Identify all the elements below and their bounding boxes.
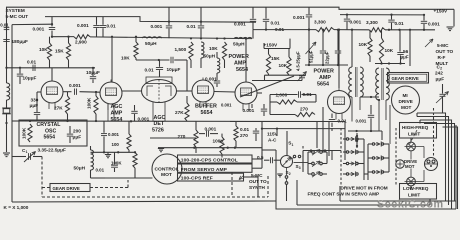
capacitor 0.01 to det	[136, 59, 170, 61]
svg-text:100-200-CPS CONTROL: 100-200-CPS CONTROL	[181, 157, 238, 163]
svg-text:LOW-FREQ: LOW-FREQ	[403, 186, 429, 191]
motor MI DRIVE MOT	[392, 86, 420, 114]
svg-text:0.01: 0.01	[0, 22, 9, 27]
svg-text:BUFFER: BUFFER	[195, 104, 217, 110]
inductor 50uH buffer plate	[217, 58, 220, 73]
svg-text:0.001: 0.001	[77, 23, 89, 28]
wire verticals to right cluster	[252, 7, 254, 18]
capacitor 0.01 x266	[265, 7, 267, 18]
svg-text:4.5-25μμF: 4.5-25μμF	[296, 51, 301, 71]
crystal Y1	[6, 107, 8, 109]
resistor 100K	[95, 92, 97, 96]
capacitor 0.01 pa2	[298, 91, 300, 97]
capacitor 0.001 x169	[168, 7, 170, 25]
svg-text:LIMIT: LIMIT	[408, 193, 420, 198]
wire bus E +150V right	[340, 14, 424, 16]
stems tube2 to bus	[107, 104, 109, 122]
capacitor 0.01 x201	[200, 7, 202, 25]
svg-text:MOT: MOT	[161, 172, 172, 178]
wire under 10Ks	[375, 63, 405, 65]
svg-text:μμF: μμF	[436, 77, 445, 82]
svg-text:100K: 100K	[213, 139, 225, 144]
capacitor 22uuF	[322, 30, 324, 50]
wire S1 to bank	[294, 162, 309, 164]
capacitor 0.001 pa out	[257, 92, 262, 94]
svg-text:LIMIT: LIMIT	[408, 132, 420, 137]
variable capacitor 4.5-25uuF	[299, 75, 305, 77]
svg-text:FREQ CONT SW IN SERVO AMP: FREQ CONT SW IN SERVO AMP	[308, 192, 380, 197]
svg-text:0.001: 0.001	[243, 108, 255, 113]
capacitor 0.001 coupling	[63, 91, 72, 93]
svg-text:10μμF: 10μμF	[23, 76, 37, 81]
svg-text:0.001: 0.001	[234, 22, 246, 27]
resistor 10K buffer grid	[135, 37, 137, 42]
capacitor 0.001 buffer	[214, 80, 220, 82]
capacitor tank right	[337, 30, 339, 50]
svg-text:180μμF: 180μμF	[12, 39, 29, 44]
resistor 10K left	[49, 37, 51, 43]
box HIGH-FREQ LIMIT	[400, 123, 437, 139]
capacitor 0.01 x103	[102, 17, 104, 25]
ground top-right	[447, 26, 454, 28]
wire switch bank stubs	[343, 138, 347, 140]
svg-text:1,000: 1,000	[276, 93, 288, 98]
transformer T1 secondary	[360, 67, 363, 97]
resistor 100 agc	[128, 122, 130, 135]
svg-text:5-MC OUT: 5-MC OUT	[6, 14, 29, 19]
svg-text:5654: 5654	[111, 117, 123, 123]
wire +150V right drop to ground	[453, 9, 455, 26]
svg-text:1: 1	[292, 143, 294, 147]
capacitor 10uuF second	[92, 68, 94, 76]
wire control mot left	[105, 177, 153, 179]
wire mid horizontals	[230, 121, 345, 123]
svg-text:10K: 10K	[209, 46, 218, 51]
svg-text:0.01: 0.01	[395, 21, 405, 26]
box FROM SERVO AMP	[178, 164, 253, 172]
wire buffer grid	[176, 90, 192, 92]
svg-text:100: 100	[112, 142, 120, 147]
svg-text:100K: 100K	[87, 97, 92, 109]
svg-text:0.01: 0.01	[240, 127, 250, 132]
svg-text:OUT TO: OUT TO	[436, 49, 454, 54]
resistor 270 det	[194, 130, 198, 147]
resistor 270 mid2	[234, 126, 238, 141]
capacitor 0.001 agc lower	[103, 122, 105, 133]
svg-text:HIGH-FREQ: HIGH-FREQ	[402, 125, 429, 130]
svg-text:CONTROL: CONTROL	[155, 166, 179, 172]
switch S1 motor cap	[281, 156, 293, 168]
resistor 10K pa	[287, 57, 291, 75]
svg-text:15K: 15K	[55, 49, 64, 54]
svg-text:10K: 10K	[385, 48, 394, 53]
svg-text:0.001: 0.001	[428, 21, 440, 26]
tube crystal osc V1	[41, 81, 63, 103]
svg-text:0.01: 0.01	[107, 24, 117, 29]
capacitor 0.01 mid2	[255, 128, 257, 130]
svg-text:100K: 100K	[22, 127, 27, 139]
svg-text:AMP: AMP	[111, 111, 123, 117]
svg-text:GEAR DRIVE: GEAR DRIVE	[53, 186, 80, 191]
svg-text:OSC: OSC	[45, 128, 56, 134]
wire dashed bottom long	[42, 196, 268, 198]
wire bus C cont	[90, 37, 252, 39]
svg-text:0.001: 0.001	[138, 116, 150, 121]
svg-text:0.01: 0.01	[187, 24, 197, 29]
capacitor 180uuF	[6, 68, 8, 83]
svg-text:3.35-22.5μμF: 3.35-22.5μμF	[38, 148, 67, 153]
resistor 100K det	[220, 137, 224, 154]
svg-text:MOT: MOT	[405, 164, 415, 169]
inductor 50uH second on bus C	[234, 37, 252, 38]
switch bank dashed enclosure	[340, 128, 342, 186]
resistor 15K	[266, 54, 270, 74]
resistor 2,900	[74, 35, 90, 39]
wire box stubs	[252, 158, 262, 160]
resistor 1,500	[189, 42, 193, 60]
wire crystal bottom	[6, 123, 8, 152]
svg-text:0.001: 0.001	[205, 77, 217, 82]
resistor 10K right2	[379, 38, 383, 62]
wire dashed motor link	[433, 108, 435, 156]
wire plate AGC amp	[111, 37, 113, 82]
inductor 50uH vert	[201, 42, 204, 58]
capacitor 0.001 pa2	[370, 105, 372, 114]
svg-text:5654: 5654	[201, 110, 213, 116]
wire pa1 lower rail	[265, 74, 307, 76]
wire power amp plate	[245, 39, 247, 82]
wire buffer out	[214, 91, 235, 94]
wire bottom nest	[276, 150, 456, 209]
wire bottom left long	[12, 201, 276, 202]
svg-text:10μμF: 10μμF	[86, 70, 100, 75]
svg-text:DRIVE MOT IN FROM: DRIVE MOT IN FROM	[341, 185, 388, 190]
svg-text:10μμF: 10μμF	[167, 67, 181, 72]
wire pa cathode	[251, 104, 253, 108]
svg-text:50μH: 50μH	[204, 54, 216, 59]
box GEAR DRIVE right	[388, 73, 429, 84]
wire right area interconnect	[409, 30, 411, 66]
wire second bus B	[45, 17, 256, 23]
tube AGC AMP V2	[100, 82, 122, 104]
resistor 3,300 second	[369, 28, 385, 32]
dashed link S3	[302, 146, 304, 172]
capacitor tank 51uuF variable	[308, 30, 310, 65]
svg-text:AGC: AGC	[111, 104, 123, 110]
wire agc join	[91, 151, 136, 153]
svg-text:MOT: MOT	[401, 105, 412, 110]
svg-text:0.01: 0.01	[96, 167, 105, 172]
capacitor 0.01 pa2 cath	[331, 114, 333, 119]
svg-text:POWER: POWER	[314, 69, 334, 75]
svg-text:56: 56	[403, 49, 409, 54]
box 100-200-CPS CONTROL	[178, 155, 253, 163]
svg-text:0.5: 0.5	[257, 155, 264, 160]
tube POWER AMP V6	[328, 91, 351, 114]
switch contacts left pair	[312, 151, 315, 154]
svg-text:5654: 5654	[44, 135, 56, 141]
svg-text:5-MC: 5-MC	[251, 173, 263, 178]
resistor 270 pa	[295, 112, 315, 116]
svg-text:3,300: 3,300	[314, 20, 326, 25]
svg-text:FROM SERVO AMP: FROM SERVO AMP	[181, 167, 228, 173]
resistor 27K cathode	[67, 92, 69, 96]
resistor 15K	[68, 37, 70, 43]
wire left box top	[12, 23, 52, 25]
resistor 10K right1	[368, 38, 372, 56]
tube BUFFER V4	[192, 80, 214, 102]
wire 115V feeds	[261, 122, 263, 153]
svg-text:+150V: +150V	[264, 42, 279, 47]
wire misc right	[410, 151, 412, 160]
resistor 10K mid	[222, 42, 226, 60]
svg-text:0.01: 0.01	[271, 21, 281, 26]
wire vert x52 w/ cap	[51, 17, 53, 27]
wire 5mc out bottom vertical	[262, 149, 276, 151]
svg-text:15K: 15K	[271, 56, 280, 61]
wire right vertical feeds	[442, 104, 444, 113]
wire pa interconnects	[270, 94, 298, 96]
capacitor 0.001 x424	[423, 15, 425, 21]
svg-text:10K: 10K	[121, 56, 130, 61]
microswitch low	[407, 177, 416, 186]
svg-text:OUT TO: OUT TO	[249, 179, 267, 184]
inductor 50uH bottom	[91, 150, 94, 170]
capacitor 0.001 det right	[199, 133, 205, 135]
wire x12 vertical	[11, 25, 13, 202]
inductor 50uH on bus C	[142, 37, 162, 38]
svg-text:50μH: 50μH	[145, 41, 157, 46]
wire bus C +150V distribution	[52, 36, 74, 38]
svg-text:+150V: +150V	[434, 9, 449, 14]
svg-text:3,300: 3,300	[366, 20, 378, 25]
box LOW-FREQ LIMIT	[400, 184, 437, 200]
resistor 27K det	[185, 103, 189, 121]
svg-text:242: 242	[435, 71, 443, 76]
wire det stems	[152, 102, 154, 122]
svg-text:10K: 10K	[279, 63, 288, 68]
svg-text:2,900: 2,900	[75, 40, 87, 45]
wire switch area verticals	[307, 152, 309, 174]
wire bus D right	[253, 29, 316, 31]
svg-text:270: 270	[300, 106, 308, 111]
svg-text:SYNTH: SYNTH	[249, 185, 266, 190]
wire tank bottom	[305, 64, 348, 66]
svg-text:5654: 5654	[317, 81, 329, 87]
capacitor 0.001 det left	[134, 105, 136, 111]
svg-text:0.001: 0.001	[205, 127, 217, 132]
svg-text:0.001: 0.001	[151, 24, 163, 29]
svg-text:CRYSTAL: CRYSTAL	[37, 122, 62, 128]
capacitor 200uuF	[69, 126, 71, 133]
svg-text:SYSTEM: SYSTEM	[6, 8, 25, 13]
svg-text:DET: DET	[154, 121, 165, 127]
svg-text:200: 200	[73, 129, 81, 134]
wire T1 top	[351, 30, 353, 67]
svg-text:0.001: 0.001	[69, 83, 81, 88]
svg-text:0.001: 0.001	[33, 27, 45, 32]
wire left border vertical	[6, 7, 8, 68]
ground s1	[277, 173, 283, 175]
resistor 1,000	[277, 100, 297, 104]
wire long line y121	[12, 120, 345, 123]
svg-text:1,500: 1,500	[175, 47, 187, 52]
resistor 3,300 first	[316, 28, 334, 32]
wire dashed gear linkage	[41, 157, 43, 198]
capacitor 0.001 x309	[308, 7, 310, 14]
ground under det2	[158, 148, 164, 150]
svg-text:10K: 10K	[39, 47, 48, 52]
svg-text:μμF: μμF	[401, 55, 409, 60]
svg-text:0.01: 0.01	[27, 59, 37, 64]
wire grid line y68	[7, 67, 96, 69]
svg-text:2: 2	[289, 172, 291, 176]
capacitor 0.01 x391	[391, 15, 393, 20]
capacitor 10uuF	[19, 68, 21, 74]
svg-text:50μH: 50μH	[74, 165, 86, 170]
wire top bus +150V line	[6, 7, 454, 9]
inductor left coil	[7, 83, 10, 100]
svg-text:AMP: AMP	[319, 75, 331, 81]
svg-text:0.01: 0.01	[145, 68, 155, 73]
svg-text:1: 1	[26, 150, 28, 154]
svg-text:27K: 27K	[175, 110, 184, 115]
tube AGC DET V3 dual diode	[142, 80, 177, 103]
wire y128	[262, 128, 345, 130]
svg-text:0.001: 0.001	[356, 118, 367, 123]
svg-text:0.01: 0.01	[303, 92, 313, 97]
microswitch high	[407, 142, 416, 151]
capacitor 0.001 mid	[263, 104, 265, 108]
box 100-CPS REF	[178, 173, 244, 181]
wire pa2 plate	[338, 30, 340, 88]
capacitor 0.001 x347	[346, 15, 348, 19]
svg-text:50μH: 50μH	[233, 42, 245, 47]
box CRYSTAL OSC 5654	[19, 120, 87, 146]
svg-text:100-CPS REF: 100-CPS REF	[181, 176, 213, 182]
svg-text:μμF: μμF	[73, 134, 82, 139]
wire det bottom	[150, 137, 196, 139]
svg-text:5-MC: 5-MC	[437, 43, 449, 48]
svg-text:0.001: 0.001	[221, 102, 232, 107]
svg-text:SeekIC.com: SeekIC.com	[377, 199, 444, 211]
wire above boxes	[158, 147, 262, 149]
resistor 100K agc	[133, 153, 137, 169]
wire pa1 minibus	[264, 48, 290, 50]
svg-text:0.001: 0.001	[293, 15, 305, 20]
svg-text:0.01: 0.01	[338, 118, 348, 123]
switch contacts right bank	[346, 138, 348, 140]
svg-text:3: 3	[299, 166, 301, 170]
transformer T2	[376, 68, 379, 100]
capacitor 0.01 agc	[114, 152, 116, 164]
wire bundle down from pa2	[316, 122, 318, 149]
svg-text:R-F: R-F	[438, 55, 446, 60]
capacitor 0.001 (left)	[49, 27, 55, 29]
resistor 100K inside box	[28, 124, 32, 142]
svg-text:51μμF: 51μμF	[309, 50, 314, 63]
transformer T1 primary	[349, 67, 352, 97]
svg-text:0.001: 0.001	[108, 132, 120, 137]
svg-text:10K: 10K	[359, 42, 368, 47]
svg-text:DRIVE: DRIVE	[399, 99, 413, 104]
capacitor 0.001 x96	[96, 17, 98, 25]
svg-text:A-C: A-C	[268, 137, 277, 142]
svg-text:0.001: 0.001	[350, 20, 362, 25]
svg-text:5726: 5726	[152, 128, 164, 134]
svg-text:AMP: AMP	[234, 61, 246, 67]
svg-text:MI: MI	[403, 93, 408, 98]
svg-text:GEAR DRIVE: GEAR DRIVE	[392, 76, 419, 81]
wire under box	[12, 120, 19, 122]
wire diagonal tap	[240, 76, 294, 97]
svg-text:270: 270	[240, 133, 248, 138]
svg-text:22μμF: 22μμF	[325, 51, 330, 64]
svg-text:K = X 1,000: K = X 1,000	[4, 205, 29, 210]
capacitor 0.01 series	[32, 65, 34, 71]
motor DRIVE MOT small	[396, 160, 404, 168]
ground left bottom	[3, 152, 10, 154]
capacitor 0.01 on left wire	[4, 27, 10, 29]
box GEAR DRIVE left	[50, 184, 90, 192]
capacitor small top	[331, 128, 333, 131]
label 5-MC OUT TO R-F MULT	[425, 39, 433, 47]
motor CONTROL MOT	[152, 154, 182, 184]
ground agc	[107, 152, 109, 154]
capacitor 10uuF series	[170, 57, 172, 63]
capacitor 56uuF	[399, 30, 401, 52]
wire AGC out	[122, 90, 142, 92]
svg-text:AGC: AGC	[154, 115, 166, 121]
motor right small	[425, 158, 438, 171]
tube POWER AMP V5	[235, 82, 257, 104]
wire dashed to control mot	[90, 187, 128, 189]
svg-text:27K: 27K	[54, 106, 63, 111]
capacitor 0.001 x253	[250, 18, 256, 20]
